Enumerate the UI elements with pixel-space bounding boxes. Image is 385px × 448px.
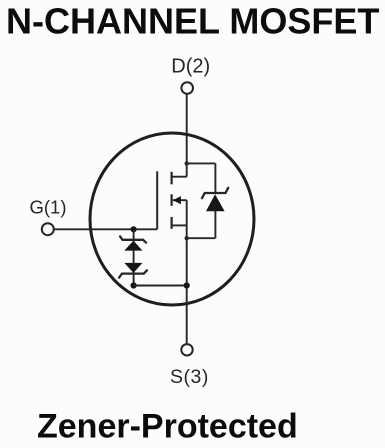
junction drain-zener branch — [185, 161, 189, 165]
terminal D(2) — [181, 82, 193, 94]
MOSFET Q1 source contact — [172, 224, 187, 226]
wire gate protection branch — [133, 229, 135, 285]
wire source — [186, 200, 188, 344]
wire zener return to source — [134, 285, 187, 287]
MOSFET Q1 gate electrode — [156, 171, 158, 229]
wire drain to zener Z1 — [187, 162, 216, 164]
terminal G(1) — [42, 223, 54, 235]
MOSFET Q1 channel segment drain — [171, 172, 173, 185]
svg-text:S(3): S(3) — [170, 366, 209, 388]
MOSFET Q1 channel segment source — [171, 217, 173, 229]
junction source return — [184, 282, 190, 288]
wire zener Z1 cathode — [214, 163, 216, 194]
wire zener Z1 anode — [214, 211, 216, 239]
junction source-zener return — [185, 236, 189, 240]
junction zener return left — [131, 282, 137, 288]
svg-text:N-CHANNEL MOSFET: N-CHANNEL MOSFET — [6, 0, 379, 41]
svg-text:D(2): D(2) — [171, 56, 210, 78]
svg-text:Zener-Protected: Zener-Protected — [37, 408, 298, 446]
MOSFET Q1 channel segment body — [171, 194, 173, 206]
zener diode Z3 gate protection cathode-down — [119, 263, 147, 278]
zener diode Z2 gate protection cathode-up — [120, 236, 146, 250]
zener diode Z1 drain-source protection — [202, 188, 228, 212]
transistor outline circle — [90, 133, 254, 305]
MOSFET Q1 drain contact — [172, 176, 187, 178]
wire drain — [186, 94, 188, 177]
terminal S(3) — [181, 344, 192, 355]
wire zener Z1 return — [187, 237, 216, 239]
MOSFET Q1 body contact with substrate arrow — [173, 196, 187, 204]
wire gate — [54, 228, 157, 230]
junction gate protection branch — [131, 226, 137, 232]
svg-text:G(1): G(1) — [30, 197, 67, 218]
